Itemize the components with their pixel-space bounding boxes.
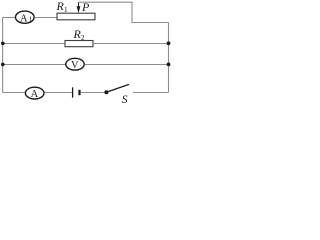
switch S pivot dot [104,90,108,94]
wire switch to right rail [133,92,169,94]
battery short plate [78,90,80,95]
wire A to battery [44,92,72,94]
slider arrow P of rheostat [77,2,81,13]
wire V row left [3,64,66,66]
wire from slider P to right rail (top) [79,2,169,22]
svg-text:R1: R1 [56,0,68,14]
svg-text:A: A [31,89,39,100]
wire top row left [3,17,16,19]
left rail wire [2,18,4,93]
switch S lever [106,84,129,92]
node dot left R2 row [1,42,5,46]
ammeter A [25,87,44,100]
wire bottom row left [3,92,26,94]
wire V to right rail [85,64,169,66]
svg-text:V: V [71,60,79,71]
battery long plate [72,87,74,97]
svg-text:A: A [20,13,28,24]
wire A1 to R1 [35,17,58,19]
wire R2 to right rail [93,43,169,45]
right rail wire [168,23,170,93]
node dot left V row [1,63,5,67]
wire R2 row left [3,43,65,45]
node dot right R2 row [167,41,171,45]
voltmeter V [66,58,84,71]
svg-text:R2: R2 [73,27,85,42]
node dot right V row [167,63,171,67]
wire battery to switch [81,92,105,94]
ammeter A1 [15,11,34,24]
svg-text:1: 1 [29,15,33,24]
resistor R1 (rheostat body) [57,13,95,20]
svg-text:S: S [122,94,128,106]
resistor R2 [65,41,93,47]
